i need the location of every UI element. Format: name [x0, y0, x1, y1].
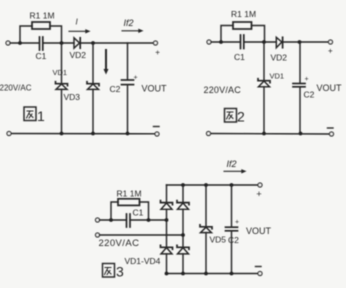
junction dot node B fig1 [60, 41, 64, 45]
svg-text:220V/AC: 220V/AC [99, 238, 140, 249]
diode VD2 fig1 [74, 38, 80, 48]
junction dot node C fig1 [91, 41, 95, 45]
bridge left column wire top fig3 [166, 185, 168, 202]
svg-text:220V/AC: 220V/AC [0, 84, 32, 93]
wire top rail right segment fig1 [81, 42, 154, 44]
svg-text:VD2: VD2 [271, 53, 288, 63]
capacitor C1 fig3 [127, 214, 131, 227]
bridge right column wire top fig3 [182, 185, 184, 202]
bridge diode VD1 fig3 [161, 201, 173, 210]
wire AC line 2 fig3 [100, 234, 184, 236]
zener VD5 fig3 [200, 185, 212, 274]
junction node A dot fig1 [18, 41, 22, 45]
wire top rail fig3 [167, 184, 259, 186]
svg-text:+: + [305, 76, 309, 83]
terminal AC input 2 fig3 [96, 233, 100, 237]
svg-text:C1: C1 [36, 51, 47, 61]
wire top rail left segment fig1 [10, 42, 39, 44]
svg-text:+: + [134, 75, 138, 82]
terminal output minus fig2 [330, 132, 334, 136]
terminal AC input top-left fig2 [207, 40, 211, 44]
junction dot node C fig2 [298, 40, 302, 44]
capacitor C2 electrolytic fig3 [226, 185, 238, 274]
terminal AC input top-left fig1 [6, 41, 10, 45]
terminal output plus fig3 [258, 183, 262, 187]
svg-text:C1: C1 [133, 208, 144, 218]
svg-text:2: 2 [237, 109, 245, 125]
bridge diode VD3 fig3 [161, 245, 173, 254]
figure label 图3 [103, 264, 125, 280]
svg-text:If2: If2 [227, 159, 237, 169]
wire AC line 1 left segment fig3 [100, 219, 127, 221]
svg-text:R1 1M: R1 1M [30, 11, 55, 21]
junction dot AC1 to bridge fig3 [165, 218, 169, 222]
load current arrow fig1 [104, 50, 109, 75]
resistor R1 fig2 [221, 22, 265, 42]
svg-text:C2: C2 [228, 235, 239, 245]
resistor R1 fig3 [111, 199, 149, 220]
zener VD3 fig1 [87, 43, 99, 134]
svg-text:+: + [328, 47, 333, 56]
bridge diode VD2 fig3 [177, 201, 189, 210]
junction dot R1 left fig3 [109, 218, 113, 222]
svg-text:C2: C2 [110, 84, 121, 94]
bridge right column wire middle fig3 [182, 209, 184, 247]
wire top rail left segment fig2 [211, 41, 240, 43]
terminal output minus fig1 [155, 132, 159, 136]
svg-text:+: + [155, 48, 160, 57]
svg-text:1: 1 [37, 108, 45, 124]
wire bottom rail fig2 [211, 133, 330, 136]
bridge left column wire bottom fig3 [166, 254, 168, 274]
figure label 图2 [225, 109, 246, 125]
svg-text:+: + [256, 189, 261, 199]
svg-text:VOUT: VOUT [246, 226, 272, 236]
terminal AC input 1 fig3 [96, 218, 100, 222]
diode VD2 fig2 [276, 37, 282, 47]
svg-text:R1 1M: R1 1M [117, 189, 142, 199]
current arrow If2 fig3 [224, 159, 247, 174]
current arrow I fig1 [69, 18, 91, 34]
zener VD1 fig1 [56, 43, 68, 134]
figure label 图1 [24, 107, 45, 124]
capacitor C1 fig1 [40, 37, 43, 50]
svg-text:220V/AC: 220V/AC [204, 85, 242, 95]
svg-text:C2: C2 [304, 90, 315, 100]
bridge right column wire bottom fig3 [182, 254, 184, 274]
junction dot AC2 to bridge fig3 [181, 233, 185, 237]
terminal bottom-left fig2 [207, 132, 211, 136]
capacitor C2 electrolytic fig1 [122, 43, 134, 134]
svg-text:VOUT: VOUT [142, 84, 168, 94]
svg-text:C1: C1 [234, 52, 245, 62]
svg-text:If2: If2 [124, 18, 134, 28]
wire AC line 1 right segment fig3 [131, 219, 167, 221]
terminal output plus fig2 [329, 40, 333, 44]
svg-text:3: 3 [116, 264, 124, 280]
capacitor C1 fig2 [241, 35, 244, 49]
wire bottom rail fig1 [11, 133, 155, 135]
svg-text:VOUT: VOUT [317, 83, 343, 93]
capacitor C2 electrolytic fig2 [293, 42, 305, 134]
bridge left column wire middle fig3 [166, 209, 168, 247]
terminal output plus fig1 [154, 41, 158, 45]
terminal bottom-left fig1 [7, 132, 11, 136]
resistor R1 fig1 [20, 22, 62, 43]
svg-text:VD1-VD4: VD1-VD4 [125, 256, 161, 266]
wire top rail middle segment fig2 [245, 41, 276, 43]
terminal output minus fig3 [258, 272, 262, 276]
wire top rail middle segment fig1 [44, 42, 75, 44]
wire bottom rail fig3 [167, 273, 259, 275]
svg-text:R1 1M: R1 1M [231, 9, 256, 19]
junction dot R1 right fig3 [147, 218, 151, 222]
junction dot node A fig2 [219, 40, 223, 44]
wire top rail right segment fig2 [282, 41, 328, 43]
junction dots bottom rail fig1 [60, 132, 64, 136]
svg-text:VD5: VD5 [210, 235, 227, 245]
svg-text:VD1: VD1 [53, 68, 68, 77]
junction dot node B fig2 [262, 40, 266, 44]
svg-text:VD1: VD1 [270, 72, 285, 81]
svg-text:VD2: VD2 [70, 50, 87, 60]
bridge diode VD4 fig3 [177, 245, 189, 254]
junction dots bottom rail fig3 [165, 272, 169, 276]
junction dots top rail fig3 [181, 183, 185, 187]
svg-text:+: + [235, 219, 239, 226]
current arrow If2 fig1 [122, 18, 144, 33]
svg-text:VD3: VD3 [64, 92, 81, 102]
junction dots bottom rail fig2 [262, 132, 266, 136]
zener VD1 fig2 [258, 42, 270, 134]
